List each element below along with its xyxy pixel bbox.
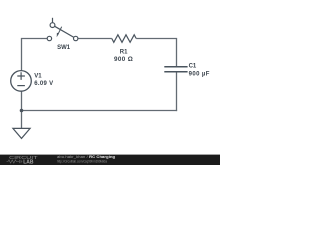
svg-text:C1: C1 <box>189 64 197 70</box>
svg-text:900 µF: 900 µF <box>189 71 210 77</box>
svg-text:R1: R1 <box>120 49 128 55</box>
wire bottom rail <box>21 110 177 112</box>
wire top-left vertical (V1 top to top rail) <box>21 39 23 71</box>
svg-text:LAB: LAB <box>23 159 34 165</box>
ground <box>13 128 30 138</box>
switch SW1 <box>47 18 78 41</box>
svg-text:http://circuitlab.com/csq99hm3: http://circuitlab.com/csq99hm399k8da <box>57 160 107 164</box>
svg-text:SW1: SW1 <box>57 45 71 51</box>
svg-text:abu.hakr_khan / RC Charging: abu.hakr_khan / RC Charging <box>57 154 116 159</box>
voltage source V1 <box>11 71 32 92</box>
logo cap symbol <box>18 160 22 163</box>
node junction dot <box>20 109 24 113</box>
wire top rail left segment <box>21 38 47 40</box>
wire junction to ground <box>21 111 23 129</box>
capacitor C1 <box>164 67 187 72</box>
watermark bar <box>0 155 220 165</box>
svg-text:900 Ω: 900 Ω <box>114 56 133 63</box>
wire V1 bottom to junction <box>21 91 23 110</box>
resistor R1 <box>112 35 136 43</box>
wire switch to resistor <box>78 38 112 40</box>
logo zigzag <box>7 160 19 163</box>
wire capacitor bottom to bottom rail <box>176 72 178 111</box>
svg-text:V1: V1 <box>34 74 42 80</box>
svg-text:6.09 V: 6.09 V <box>34 81 53 87</box>
wire right vertical to capacitor top <box>176 39 178 67</box>
wire resistor to top-right corner <box>136 38 177 40</box>
